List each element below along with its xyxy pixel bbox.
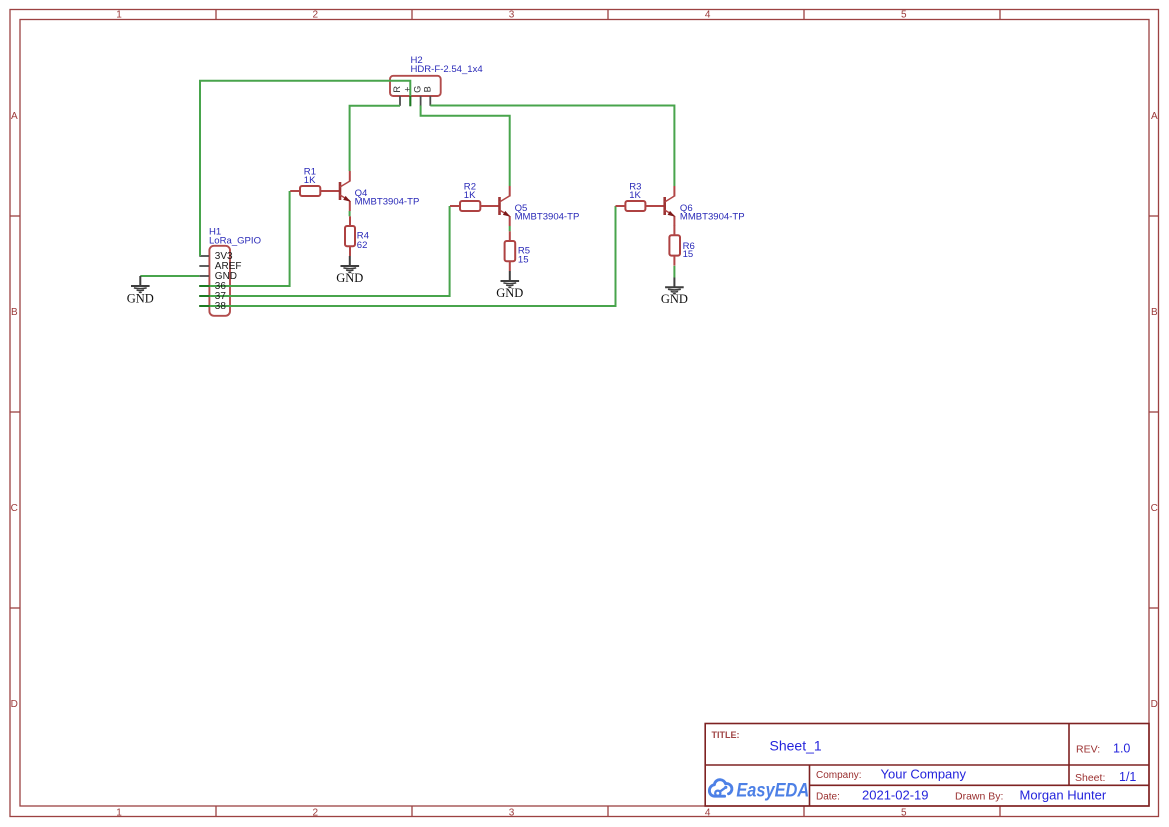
svg-text:1.0: 1.0 (1113, 742, 1130, 756)
svg-text:GND: GND (127, 291, 154, 305)
svg-text:R: R (392, 86, 402, 93)
svg-text:2: 2 (313, 808, 319, 819)
svg-text:GND: GND (496, 286, 523, 300)
svg-text:1K: 1K (629, 190, 641, 201)
svg-text:REV:: REV: (1076, 744, 1100, 756)
svg-text:4: 4 (705, 808, 711, 819)
svg-text:MMBT3904-TP: MMBT3904-TP (355, 197, 420, 208)
svg-text:38: 38 (215, 301, 227, 312)
svg-text:LoRa_GPIO: LoRa_GPIO (209, 236, 261, 247)
svg-text:C: C (1151, 503, 1158, 514)
svg-text:Sheet_1: Sheet_1 (770, 738, 822, 754)
svg-text:TITLE:: TITLE: (712, 730, 740, 740)
svg-text:MMBT3904-TP: MMBT3904-TP (515, 212, 580, 223)
svg-text:HDR-F-2.54_1x4: HDR-F-2.54_1x4 (411, 64, 484, 75)
svg-text:D: D (1151, 699, 1158, 710)
svg-text:2: 2 (313, 10, 319, 21)
svg-text:1K: 1K (304, 175, 316, 186)
svg-text:2021-02-19: 2021-02-19 (862, 788, 929, 803)
svg-text:15: 15 (683, 249, 694, 260)
svg-text:A: A (11, 111, 18, 122)
svg-text:4: 4 (705, 10, 711, 21)
svg-text:1: 1 (116, 10, 122, 21)
svg-text:1K: 1K (464, 190, 476, 201)
svg-text:15: 15 (518, 255, 529, 266)
svg-text:5: 5 (901, 808, 907, 819)
svg-text:Sheet:: Sheet: (1075, 772, 1105, 784)
svg-text:B: B (11, 307, 18, 318)
svg-text:+: + (402, 87, 412, 92)
svg-text:B: B (422, 86, 432, 92)
svg-text:5: 5 (901, 10, 907, 21)
svg-text:G: G (413, 86, 423, 93)
svg-text:Company:: Company: (816, 770, 862, 781)
svg-text:EasyEDA: EasyEDA (736, 779, 809, 800)
svg-text:B: B (1151, 307, 1158, 318)
svg-text:Date:: Date: (816, 792, 840, 803)
svg-text:GND: GND (661, 292, 688, 306)
svg-text:3: 3 (509, 10, 515, 21)
svg-text:C: C (11, 503, 18, 514)
svg-text:Morgan Hunter: Morgan Hunter (1020, 788, 1107, 803)
svg-text:D: D (11, 699, 18, 710)
svg-text:62: 62 (357, 240, 368, 251)
svg-text:1: 1 (116, 808, 122, 819)
svg-text:3: 3 (509, 808, 515, 819)
svg-text:GND: GND (336, 271, 363, 285)
svg-text:A: A (1151, 111, 1158, 122)
svg-text:MMBT3904-TP: MMBT3904-TP (680, 212, 745, 223)
svg-text:1/1: 1/1 (1119, 770, 1136, 784)
svg-text:Drawn By:: Drawn By: (955, 791, 1003, 803)
svg-text:Your Company: Your Company (881, 766, 967, 781)
